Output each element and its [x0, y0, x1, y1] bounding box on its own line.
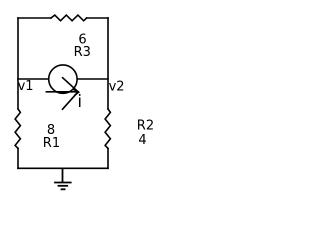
wire left wall lower: [17, 148, 19, 168]
wire top-left segment: [18, 17, 51, 19]
arrow shaft for current i: [46, 91, 76, 93]
wire right wall lower: [107, 148, 109, 168]
svg-text:4: 4: [138, 133, 146, 148]
ground bar 2: [58, 185, 69, 187]
resistor R3: [51, 15, 87, 21]
wire top-right segment: [87, 17, 108, 19]
current source U1 circle: [49, 65, 77, 93]
wire middle right (node v2): [78, 78, 109, 80]
ground bar 1: [54, 182, 72, 184]
wire right wall upper: [107, 18, 109, 109]
ground stem: [62, 168, 64, 182]
resistor R2: [105, 109, 110, 148]
arrow chevron lower arm: [63, 92, 79, 109]
wire bottom: [18, 167, 108, 169]
svg-text:v1: v1: [18, 79, 34, 94]
ground bar 3: [61, 188, 66, 190]
svg-text:R2: R2: [137, 119, 154, 134]
resistor R1: [15, 109, 20, 148]
svg-text:R3: R3: [74, 45, 91, 60]
wire left wall upper: [17, 18, 19, 109]
arrowhead of current arrow: [73, 89, 79, 95]
svg-text:v2: v2: [109, 80, 125, 95]
arrow chevron upper arm: [63, 78, 79, 92]
svg-text:R1: R1: [43, 136, 60, 151]
wire middle left (node v1): [18, 78, 48, 80]
svg-text:i: i: [77, 91, 82, 111]
